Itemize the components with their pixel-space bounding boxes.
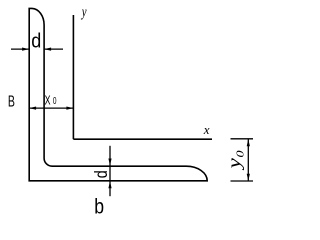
svg-text:d: d xyxy=(93,170,112,178)
svg-text:b: b xyxy=(94,195,104,215)
svg-text:X: X xyxy=(45,94,51,108)
svg-text:x: x xyxy=(203,122,210,137)
svg-text:d: d xyxy=(31,31,41,53)
svg-text:B: B xyxy=(8,92,15,110)
svg-text:0: 0 xyxy=(53,95,57,107)
svg-text:y: y xyxy=(80,3,87,20)
